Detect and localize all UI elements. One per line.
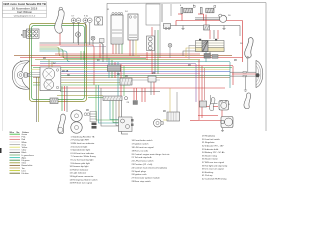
svg-text:19 Horn, no volts: 19 Horn, no volts xyxy=(132,149,149,152)
svg-text:23 Position (12 + left): 23 Position (12 + left) xyxy=(132,163,153,166)
svg-text:26 Ignition coils: 26 Ignition coils xyxy=(132,173,148,176)
svg-text:Brown/white: Brown/white xyxy=(22,164,34,167)
svg-text:38 Tail light and stop lamp: 38 Tail light and stop lamp xyxy=(202,164,228,167)
svg-text:8 Low fuel warning light: 8 Low fuel warning light xyxy=(71,159,94,162)
svg-text:4B: 4B xyxy=(117,74,120,76)
svg-text:25 Spark plugs: 25 Spark plugs xyxy=(132,170,147,173)
svg-text:1 Stabilising Rect/fier 7B: 1 Stabilising Rect/fier 7B xyxy=(71,135,95,138)
svg-text:14 Emergency flasher switch: 14 Emergency flasher switch xyxy=(70,178,99,181)
svg-text:36 Starter motor: 36 Starter motor xyxy=(202,158,218,161)
svg-text:34 Battery 12V - 5C Ah: 34 Battery 12V - 5C Ah xyxy=(202,151,225,154)
svg-text:35 Starter relay: 35 Starter relay xyxy=(202,154,218,157)
svg-text:4 Instrument light: 4 Instrument light xyxy=(71,145,88,148)
svg-text:30 Low fuel switch: 30 Low fuel switch xyxy=(202,138,221,141)
svg-text:11 Helmet indicator: 11 Helmet indicator xyxy=(70,168,89,171)
svg-text:Dk olive: Dk olive xyxy=(22,173,30,175)
svg-text:29 Headlamp: 29 Headlamp xyxy=(202,136,216,138)
svg-text:17 Ignition switch: 17 Ignition switch xyxy=(132,143,150,146)
svg-text:20 Control: engine main things: 20 Control: engine main things: first et… xyxy=(132,153,171,156)
svg-text:33 Indicator bulb: 33 Indicator bulb xyxy=(202,148,219,151)
svg-text:32 Indicator: HV - 18V: 32 Indicator: HV - 18V xyxy=(202,145,224,148)
svg-text:4B: 4B xyxy=(125,76,128,78)
svg-text:39 L/C rear turn signal: 39 L/C rear turn signal xyxy=(202,168,224,171)
svg-text:Lt green/trace: Lt green/trace xyxy=(22,154,35,157)
svg-text:6 L/H front turn indicator: 6 L/H front turn indicator xyxy=(71,152,95,155)
svg-text:4B: 4B xyxy=(43,58,46,60)
svg-text:7 Connector: White 8-way: 7 Connector: White 8-way xyxy=(71,155,97,158)
svg-text:13 High beam connector: 13 High beam connector xyxy=(70,175,94,178)
svg-text:5 Speedometer light: 5 Speedometer light xyxy=(71,149,91,152)
svg-text:31 Regulator: 31 Regulator xyxy=(202,141,215,144)
svg-text:16 Front brake switch: 16 Front brake switch xyxy=(132,139,154,142)
svg-text:Carl Wilson: Carl Wilson xyxy=(17,10,33,14)
svg-text:18 L/H front turn signal: 18 L/H front turn signal xyxy=(132,146,155,149)
svg-text:4B: 4B xyxy=(163,111,166,113)
svg-text:41 Pick-up: 41 Pick-up xyxy=(202,175,213,177)
svg-text:12 Light indicator: 12 Light indicator xyxy=(70,172,87,175)
svg-text:40 Earthing: 40 Earthing xyxy=(202,171,214,174)
svg-text:4B 4B: 4B 4B xyxy=(62,71,69,73)
svg-text:2B: 2B xyxy=(152,73,155,75)
svg-text:3 R/H front turn indicator: 3 R/H front turn indicator xyxy=(71,142,95,145)
svg-text:22 L/H previous switch: 22 L/H previous switch xyxy=(132,160,155,163)
svg-text:2 Parking light R/H: 2 Parking light R/H xyxy=(71,139,90,142)
svg-text:15 R/H front turn signal: 15 R/H front turn signal xyxy=(70,182,93,185)
svg-text:24 Control: main electrical he: 24 Control: main electrical headlamp xyxy=(132,166,168,169)
svg-text:10 Dimmer dip light: 10 Dimmer dip light xyxy=(70,165,89,168)
svg-text:4B: 4B xyxy=(234,60,237,62)
svg-text:4B: 4B xyxy=(86,110,89,112)
svg-text:27 Generator ignition module: 27 Generator ignition module xyxy=(132,177,161,180)
svg-text:wiring diagram rev 1.2: wiring diagram rev 1.2 xyxy=(14,14,36,17)
svg-text:4B: 4B xyxy=(188,65,191,67)
svg-text:42 Camshaft HOR timing: 42 Camshaft HOR timing xyxy=(202,178,227,181)
svg-text:3B: 3B xyxy=(67,75,70,77)
svg-text:28 Rear stop switch: 28 Rear stop switch xyxy=(132,180,152,183)
svg-text:White: White xyxy=(22,141,28,144)
svg-text:9 Hi-beam pilot light: 9 Hi-beam pilot light xyxy=(71,162,91,165)
svg-text:37 R/H rear turn signal: 37 R/H rear turn signal xyxy=(202,161,225,164)
svg-text:21 Tail and stop bulb: 21 Tail and stop bulb xyxy=(132,156,153,159)
